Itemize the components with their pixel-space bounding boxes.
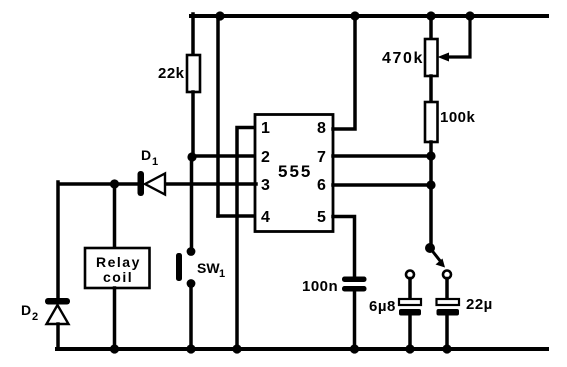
svg-text:2: 2 [261,149,270,166]
wire 470k wiper from top rail [447,16,470,57]
node pin1 ground junction [232,344,241,353]
wire 470k pot from top rail [429,16,433,39]
svg-text:100k: 100k [440,109,476,126]
wire D1 anode to left branch [59,182,137,186]
wire pin 1 to ground rail [237,128,256,350]
wire left branch down to D2 [56,182,60,299]
diode D1 cathode bar [138,171,145,196]
node selector switch pole [425,243,435,253]
switch throw terminal circle (22u) [443,271,451,279]
svg-text:2: 2 [32,311,38,323]
wire 22u terminal to capacitor [445,279,449,300]
op-amp/timer IC 555 body [255,115,333,232]
wire pin 4 vertical from top rail [216,16,220,216]
wiper arrowhead [438,53,450,62]
capacitor 100n top plate [342,277,367,283]
wire 22k branch: top rail corner down to resistor [191,14,195,55]
capacitor 22u bottom plate [437,309,460,316]
wire 22u to ground rail [445,316,449,350]
wire pin 7 [333,154,431,158]
wire top supply rail [191,14,547,18]
svg-text:6µ8: 6µ8 [369,298,396,315]
node 470k top rail junction [426,11,435,20]
diode D1 triangle [145,174,165,195]
node relay/D1 junction [110,179,119,188]
wire pin 4 [218,214,256,218]
svg-text:555: 555 [278,162,312,181]
wire SW1 to ground rail [189,284,193,350]
svg-text:coil: coil [103,269,133,285]
svg-text:7: 7 [317,149,326,166]
svg-text:Relay: Relay [96,254,141,270]
wire pin 5 to 100n [333,217,355,278]
node SW1 top contact [187,247,196,256]
node pin7 junction [426,151,435,160]
svg-text:5: 5 [317,209,326,226]
svg-text:100n: 100n [302,278,338,295]
node pin6 junction [426,180,435,189]
svg-text:D: D [141,147,151,163]
wire 6u8 to ground rail [408,316,412,350]
capacitor 22u top plate (hollow) [437,299,460,305]
svg-text:3: 3 [261,177,270,194]
capacitor 100n bottom plate [342,286,367,292]
svg-text:4: 4 [261,209,270,226]
switch selector arm arrowhead [436,259,446,268]
node junction of 22k / pin2 / SW1 [187,152,196,161]
svg-text:SW: SW [197,260,220,276]
node pin8 top rail junction [350,11,359,20]
switch SW1 actuator bar [176,253,182,281]
wire D2 to ground rail [56,324,60,349]
svg-text:22k: 22k [158,65,185,82]
node top rail junction A [215,11,224,20]
wire pin 6 [333,183,431,187]
relay coil box [85,248,150,288]
diode D2 cathode bar [45,298,70,305]
wire pin 8 to top rail [333,16,355,129]
wire 470k to 100k [429,76,433,102]
node relay ground junction [110,344,119,353]
resistor 100k [425,102,438,142]
svg-text:D: D [21,302,31,318]
switch throw terminal circle (6u8) [406,271,414,279]
svg-text:8: 8 [317,120,326,137]
node 100n ground junction [350,344,359,353]
svg-text:470k: 470k [382,50,424,67]
capacitor 6u8 bottom plate [399,309,421,316]
node 6u8 ground junction [405,344,414,353]
switch selector arm [430,248,441,262]
node SW1 ground junction [186,344,195,353]
node wiper top rail junction [465,11,474,20]
wire 22k bottom to pin2 junction [191,92,195,157]
wire 100n to ground rail [353,292,357,350]
svg-text:1: 1 [219,268,225,280]
wire pin 2 [192,154,256,158]
wire 100k down to selector pole [429,142,433,247]
svg-text:22µ: 22µ [466,296,493,313]
node 22u ground junction [442,344,451,353]
capacitor 6u8 top plate (hollow) [399,299,421,305]
wire relay branch down from D1 junction [113,184,117,248]
wire pin 3 output to D1 [165,182,256,186]
node SW1 bottom contact [187,279,196,288]
potentiometer 470k body [425,39,438,76]
svg-text:1: 1 [152,156,158,168]
wire bottom ground rail [57,347,547,351]
wire relay box to ground rail [113,288,117,349]
resistor 22k [187,55,200,92]
wire SW1 branch from pin2 junction down [190,157,194,251]
wire 6u8 terminal to capacitor [408,279,412,300]
svg-text:6: 6 [317,177,326,194]
diode D2 triangle [47,305,69,324]
svg-text:1: 1 [261,120,270,137]
